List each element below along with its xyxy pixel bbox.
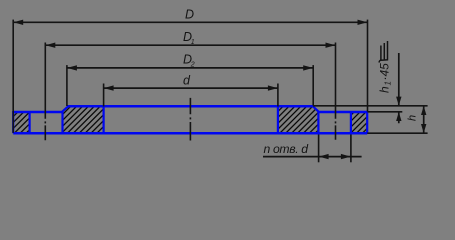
- arrow bolt dim right (pointing right): [341, 154, 351, 159]
- dimension line D2: [67, 67, 313, 69]
- flange outline: plate top right edge: [318, 111, 367, 114]
- svg-text:h: h: [407, 115, 419, 121]
- extension line plate bottom right (for h): [367, 132, 427, 134]
- svg-text:·45: ·45: [378, 63, 392, 81]
- arrow h1 upper (pointing down): [396, 97, 401, 106]
- flange outline: right bolt hole left edge: [317, 111, 319, 134]
- arrow D1 left: [46, 43, 56, 48]
- hatching: left hub section: [63, 107, 104, 133]
- extension line / bolt hole centerline right: [335, 43, 337, 140]
- svg-text:1: 1: [384, 81, 393, 85]
- extension line / bolt hole centerline left: [44, 43, 46, 141]
- svg-text:d: d: [183, 73, 191, 87]
- extension line plate top right (for h1): [368, 111, 403, 113]
- arrow h top (pointing up): [421, 106, 426, 115]
- flange outline: left bolt hole right edge: [61, 111, 63, 134]
- arrow h1 lower (pointing up): [396, 112, 401, 121]
- flange outline: plate top left edge: [13, 111, 62, 114]
- extension line D right: [367, 20, 369, 112]
- flange outline: plate left edge: [12, 111, 14, 133]
- dimension line D: [13, 21, 367, 23]
- dimension h (thickness), arrows inside: [423, 106, 425, 133]
- svg-text:n отв. d: n отв. d: [264, 142, 310, 156]
- extension line D2 left: [66, 65, 68, 106]
- flange outline: bore left edge: [102, 106, 104, 133]
- dimension line D1: [45, 44, 335, 46]
- svg-text:h: h: [378, 86, 392, 93]
- flange outline: plate bottom edge: [13, 132, 367, 135]
- arrow D right: [358, 20, 368, 25]
- extension line bolt hole left: [318, 135, 320, 163]
- flange outline: right chamfer: [313, 106, 319, 111]
- arrow h bottom (pointing down): [421, 124, 426, 133]
- extension line bolt hole right: [350, 135, 352, 163]
- flange outline: right bolt hole right edge: [350, 111, 352, 134]
- flange outline: bore right edge: [277, 106, 279, 133]
- arrow D1 right: [326, 43, 336, 48]
- extension line D left: [12, 20, 14, 133]
- arrow D left: [13, 20, 23, 25]
- dimension line d: [104, 87, 278, 89]
- degree mark of chamfer label (fork shaped): [379, 41, 388, 63]
- flange outline: hub top edge: [68, 105, 314, 108]
- svg-text:2: 2: [190, 61, 195, 68]
- main centerline: [189, 98, 191, 141]
- dimension h1 (chamfer height), arrows outside: [398, 53, 400, 123]
- flange outline: left bolt hole left edge: [29, 111, 31, 134]
- svg-text:D: D: [185, 7, 194, 21]
- hatching: right hub section: [278, 107, 318, 133]
- flange outline: left chamfer: [62, 106, 68, 111]
- bolt hole dimension line (n holes d): [263, 156, 362, 158]
- extension line d left: [103, 84, 105, 107]
- arrow bolt dim left (pointing left): [319, 154, 329, 159]
- extension line hub top (for h and h1): [313, 105, 428, 107]
- extension line d right: [277, 84, 279, 107]
- arrow d left: [104, 85, 114, 90]
- hatching: left rim section: [14, 112, 30, 133]
- hatching: right rim section: [351, 112, 367, 133]
- arrow d right: [268, 85, 278, 90]
- arrow D2 left: [67, 65, 77, 70]
- svg-text:1: 1: [191, 39, 195, 46]
- extension line D2 right: [312, 65, 314, 105]
- arrow D2 right: [303, 65, 313, 70]
- flange outline: plate right edge: [366, 111, 368, 134]
